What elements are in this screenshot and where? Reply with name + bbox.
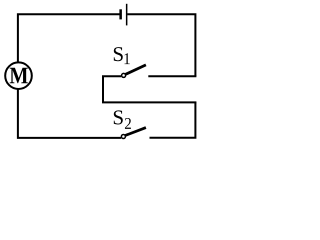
motor U1: letter M bbox=[10, 68, 28, 84]
wire: left vertical + top run to battery negative plate bbox=[18, 14, 120, 62]
switch S2: open blade bbox=[125, 128, 146, 136]
wire: battery to top-right corner, down to S1 contact level bbox=[127, 14, 195, 76]
battery B1: short thick plate (negative) bbox=[119, 9, 122, 19]
label S1 bbox=[114, 47, 123, 61]
switch S1: pivot circle bbox=[122, 73, 126, 77]
switch S1: open blade bbox=[125, 65, 145, 75]
wire: S2 fixed contact to bottom-right corner, up to middle run bbox=[150, 102, 196, 137]
wire: motor bottom to bottom-left corner, along bottom to S2 pivot bbox=[18, 89, 121, 138]
motor U1: circle bbox=[5, 62, 32, 89]
label S2 bbox=[114, 110, 123, 124]
wire: middle horizontal run bbox=[103, 76, 196, 102]
battery B1: long thin plate (positive) bbox=[126, 4, 128, 26]
switch S2: pivot circle bbox=[121, 135, 125, 139]
wire: S1 fixed contact lead to right vertical bbox=[148, 75, 196, 77]
wire: S1 left lead from corner to pivot bbox=[102, 75, 121, 77]
